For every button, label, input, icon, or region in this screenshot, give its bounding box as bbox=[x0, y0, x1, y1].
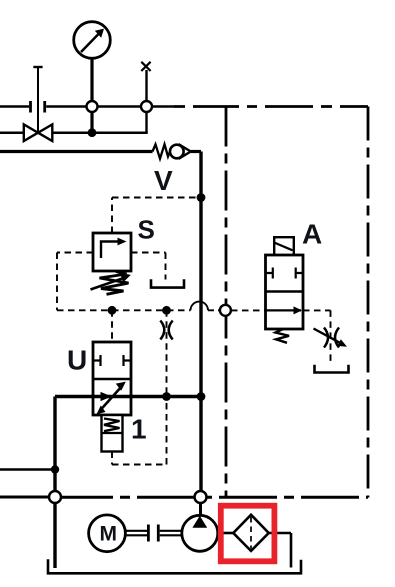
svg-text:V: V bbox=[154, 165, 173, 196]
throttle valve U bbox=[93, 342, 131, 415]
tank outline bbox=[48, 559, 301, 573]
wire return vertical x55 bbox=[53, 397, 56, 569]
wire main vertical x201 bbox=[199, 152, 202, 492]
wire y133 left bbox=[0, 131, 24, 134]
boundary bottom dash-dot bbox=[55, 496, 368, 499]
wire main pressure line y151 bbox=[0, 150, 153, 153]
wire y497 from left bbox=[0, 496, 49, 499]
wire pump suction bbox=[199, 503, 202, 515]
svg-text:S: S bbox=[138, 215, 155, 245]
shaft coupling bbox=[125, 525, 182, 542]
svg-text:U: U bbox=[67, 345, 87, 376]
pilot bus y310 bbox=[57, 309, 191, 311]
node dot S sense tee bbox=[197, 193, 206, 202]
throttle A adjustable bbox=[314, 328, 348, 348]
filter F bbox=[233, 515, 268, 551]
solenoid 1 with spring bbox=[102, 415, 123, 452]
pilot line S left port bbox=[57, 253, 93, 311]
node dot U line tee bbox=[197, 392, 206, 401]
node circle pump port bbox=[195, 491, 207, 503]
tank S drain bbox=[151, 279, 184, 287]
pilot line to valve A bbox=[231, 309, 266, 311]
pilot line A drain bbox=[303, 310, 331, 365]
boundary top dash-dot bbox=[174, 105, 368, 108]
node dot y469 bbox=[51, 465, 59, 473]
pilot line S right drain bbox=[131, 253, 166, 280]
boundary left dash-dot bbox=[225, 107, 228, 498]
node circle gauge port bbox=[87, 101, 98, 112]
wire y469 from left bbox=[0, 468, 55, 470]
wire plug stem bbox=[145, 70, 147, 133]
node circle return port bbox=[49, 491, 61, 503]
quick coupler bars bbox=[31, 101, 45, 113]
node dot pilot orifice bbox=[162, 306, 171, 315]
pilot line orifice branch bbox=[166, 310, 168, 396]
wire hop over x201 bbox=[191, 302, 209, 311]
node circle pilot boundary port bbox=[220, 305, 231, 316]
wire pump to filter bbox=[218, 532, 234, 535]
wire y133 mid bbox=[52, 131, 147, 134]
svg-text:1: 1 bbox=[131, 414, 147, 445]
node dot gauge tee bbox=[88, 128, 97, 137]
arrow U flow bbox=[101, 392, 112, 401]
node circle plug port bbox=[141, 101, 152, 112]
wire U main line bbox=[55, 395, 201, 398]
plugged port X bbox=[141, 62, 150, 71]
relief valve S bbox=[93, 233, 131, 271]
svg-text:M: M bbox=[100, 523, 118, 546]
wire filter outlet bbox=[269, 533, 291, 568]
orifice bbox=[160, 321, 172, 340]
pump bbox=[182, 515, 218, 551]
wire gauge stem bbox=[90, 59, 93, 134]
node dot orifice bottom bbox=[162, 392, 171, 401]
pressure gauge G bbox=[74, 22, 111, 59]
pilot line S sense bbox=[112, 198, 201, 234]
pilot line U top bbox=[111, 310, 113, 342]
pilot bus to boundary port bbox=[208, 309, 220, 311]
spring A bbox=[276, 329, 290, 343]
svg-text:A: A bbox=[302, 219, 322, 250]
electric motor M bbox=[89, 515, 126, 552]
arrow U throttle diagonal bbox=[97, 382, 126, 415]
wire gauge-line y106 mid bbox=[46, 105, 174, 108]
node dot pilot U bbox=[108, 306, 117, 315]
pilot line U solenoid loop bbox=[112, 400, 167, 465]
solenoid valve A bbox=[266, 237, 304, 329]
boundary right dash-dot bbox=[367, 107, 370, 498]
wire gauge-line y106 left bbox=[0, 105, 29, 108]
highlight red box filter bbox=[221, 506, 275, 562]
tank A drain bbox=[315, 365, 349, 373]
spring S adjustable bbox=[91, 272, 131, 295]
shut-off valve bbox=[24, 67, 53, 141]
check valve V bbox=[153, 144, 202, 159]
